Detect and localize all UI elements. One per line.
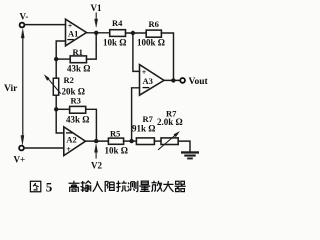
svg-text:R4: R4	[112, 18, 123, 28]
wire R3 right down to A2 output node	[86, 109, 97, 141]
Vir measurement arrow (double headed)	[21, 29, 24, 145]
svg-text:V2: V2	[91, 161, 102, 171]
svg-text:V1: V1	[91, 3, 102, 13]
resistor R7 (91k)	[136, 138, 154, 145]
wire R7 to potentiometer	[154, 140, 161, 142]
wire A3 output	[164, 79, 180, 81]
caption char 量	[139, 181, 150, 191]
wire node to R1	[56, 58, 70, 60]
caption: 图 5 高输入阻抗测量放大器 (drawn strokes)	[30, 179, 185, 194]
potentiometer R2	[44, 74, 61, 95]
op-amp A1	[66, 19, 87, 46]
svg-text:43k Ω: 43k Ω	[67, 64, 90, 74]
terminal V-	[20, 23, 25, 28]
op-amp A3	[140, 65, 165, 96]
resistor R3	[70, 106, 86, 113]
potentiometer R7 (2.0k)	[159, 131, 180, 149]
wire R2 bottom to A2 inverting input	[56, 95, 64, 133]
resistor R5	[108, 138, 123, 144]
svg-text:10k Ω: 10k Ω	[103, 38, 126, 48]
node R4/R6 junction	[131, 31, 135, 35]
wire potentiometer to ground	[178, 141, 190, 152]
svg-text:+: +	[66, 145, 71, 154]
terminal Vout	[180, 78, 185, 83]
svg-text:R7: R7	[143, 114, 154, 124]
svg-text:43k Ω: 43k Ω	[66, 115, 89, 125]
caption char 抗	[116, 181, 127, 192]
wire R6 right down to A3 output node	[161, 33, 173, 80]
wire R5 to R7	[124, 140, 137, 142]
wire R1 right to output node	[87, 33, 97, 59]
ground	[181, 151, 199, 159]
wire node to R3	[56, 108, 69, 110]
svg-text:Vir: Vir	[4, 84, 18, 94]
svg-text:A1: A1	[68, 28, 78, 38]
svg-text:A3: A3	[143, 76, 153, 86]
caption char 阻	[105, 181, 115, 192]
svg-text:R3: R3	[71, 96, 81, 106]
resistor R4	[110, 30, 126, 37]
svg-text:2.0k Ω: 2.0k Ω	[157, 117, 183, 127]
caption char 大	[163, 181, 173, 192]
wire V+ to A2	[24, 147, 64, 149]
wire A1 inverting input bend	[56, 41, 65, 78]
op-amp A2	[64, 127, 86, 156]
wire V- to A1 + input	[25, 24, 66, 26]
wire junction up to A3 bottom input	[132, 88, 140, 141]
caption char 图	[30, 181, 40, 191]
svg-text:91k Ω: 91k Ω	[132, 124, 155, 134]
node V2 junction	[94, 139, 98, 143]
caption char 入	[93, 181, 103, 192]
wire junction down to A3 top input	[133, 33, 140, 71]
caption char 器	[175, 181, 186, 191]
svg-text:R1: R1	[73, 47, 83, 57]
svg-text:R5: R5	[110, 129, 120, 139]
wire R4 to R6	[126, 32, 147, 34]
svg-text:V+: V+	[14, 155, 26, 165]
node: A1 feedback junction	[54, 57, 58, 61]
node R2/R3 junction	[54, 107, 58, 111]
svg-text:Vout: Vout	[189, 77, 209, 87]
svg-text:R2: R2	[64, 75, 74, 85]
caption char 放	[151, 181, 162, 192]
svg-text:10k Ω: 10k Ω	[105, 146, 128, 156]
resistor R6	[146, 30, 161, 37]
caption char 输	[81, 181, 92, 192]
svg-text:5: 5	[46, 179, 53, 194]
svg-text:V-: V-	[20, 12, 29, 22]
arrow V1 pointing down to node	[95, 13, 98, 27]
svg-text:A2: A2	[66, 134, 76, 144]
caption char 测	[128, 181, 138, 192]
resistor R1	[70, 56, 86, 63]
node R5/R7 junction	[129, 139, 133, 143]
node V1 junction	[94, 31, 98, 35]
svg-text:R6: R6	[149, 19, 159, 29]
wire A1 output rail	[86, 32, 110, 34]
terminal V+	[19, 146, 24, 151]
node A3 output / R6 feedback	[171, 78, 175, 82]
arrow V2 pointing up to node	[95, 144, 98, 158]
wire A2 output rail	[86, 140, 109, 142]
caption char 高	[69, 181, 80, 192]
svg-text:100k Ω: 100k Ω	[137, 38, 165, 48]
